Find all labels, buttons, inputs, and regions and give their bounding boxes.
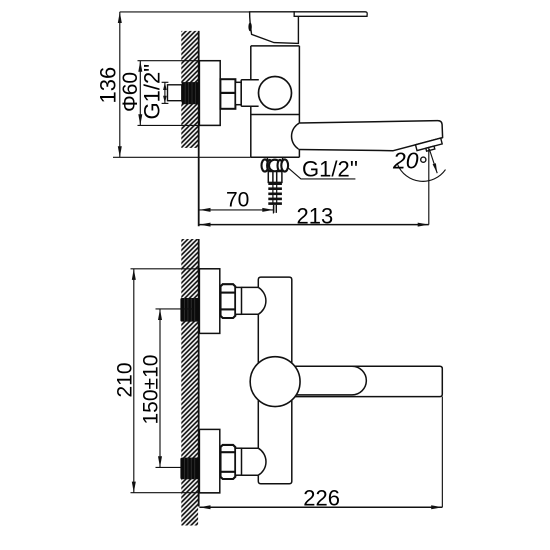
svg-text:226: 226 [303, 485, 340, 510]
svg-text:G1/2'': G1/2'' [302, 157, 358, 182]
svg-text:136: 136 [96, 67, 121, 104]
svg-text:213: 213 [297, 203, 334, 228]
svg-text:20: 20 [392, 148, 419, 174]
svg-text:150±10: 150±10 [140, 355, 163, 425]
svg-text:G1/2": G1/2" [140, 64, 165, 120]
svg-text:210: 210 [114, 362, 137, 397]
svg-text:70: 70 [226, 189, 249, 212]
